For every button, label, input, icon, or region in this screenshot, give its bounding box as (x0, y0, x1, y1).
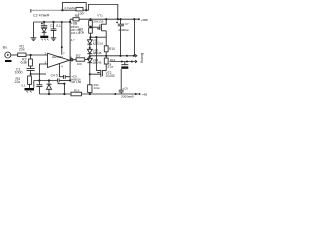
node dot rail D at x=39.4 (38, 79, 40, 81)
diode VD1 (zener below C2) (42, 28, 47, 36)
chassis ground bar under R3 (25, 88, 35, 90)
output terminal chevron bottom (135, 60, 137, 63)
svg-text:6,8к: 6,8к (21, 61, 28, 65)
resistor R1 (series input) (18, 53, 26, 57)
wire jack to R1 (11, 54, 18, 56)
node dot connector bottom at C8 (121, 60, 123, 62)
wire output drop x=134.5 (rail C to connector) (134, 19, 136, 56)
svg-text:+6В: +6В (71, 22, 78, 26)
wire vertical bus x=70.1 (rail C left end down to bottom rail) (69, 19, 71, 80)
supply arrow +38V (137, 18, 140, 20)
diode VD3 (87, 48, 92, 57)
svg-text:0,1: 0,1 (22, 83, 26, 87)
capacitor C8 (Zobel to ground near connector) (121, 62, 128, 65)
resistor R8 box on rail C (73, 18, 79, 21)
svg-text:2000мкФ: 2000мкФ (121, 95, 134, 99)
resistor R10 (box a on x=106.2) (104, 46, 108, 52)
pin 7 wire (V+ up to rail B) (61, 22, 63, 55)
resistor R13 (in bottom rail) (71, 92, 82, 96)
svg-text:100: 100 (77, 62, 82, 66)
node dot rail D at diode (48, 79, 50, 81)
wire C8 down to C9 (120, 69, 122, 90)
wire rail D (pin3 bias bus y=80.5) (34, 80, 58, 82)
svg-text:НЕ5534: НЕ5534 (52, 55, 63, 59)
transistor VT1 (n-MOSFET 2SK135) (91, 19, 107, 31)
capacitor C1 (27, 69, 35, 74)
node dot pin7 at rail B (61, 21, 63, 23)
ground (left, under x=33.5) (31, 38, 37, 41)
wire detour over VT1 (up-and-over) (86, 5, 118, 20)
svg-text:0,1: 0,1 (56, 24, 61, 28)
svg-text:+C9: +C9 (122, 86, 128, 90)
svg-text:+4В: +4В (142, 93, 148, 97)
node dot bottom at diode (48, 93, 50, 95)
node dot input node A (30, 54, 32, 56)
capacitor C6 (series in rail D) (57, 79, 59, 83)
resistor R12 (box b on x=106.2) (104, 58, 108, 64)
node dot W3 at R column (105, 55, 107, 57)
pin 3 wire (39, 64, 47, 81)
svg-text:4,7мкГн: 4,7мкГн (64, 6, 75, 10)
node dot C2 top (43, 21, 45, 23)
svg-text:R8: R8 (75, 14, 80, 18)
wire output drop x=96.4 (W1 down to VT2) (95, 37, 97, 70)
wire rail B (reference bus y=22 from x=33.5 to x=70.1) (34, 21, 71, 23)
diode VD2 (on x=89.8 column) (87, 37, 92, 48)
node dot bottom rail right 1 (114, 93, 116, 95)
node dot bottom at R11 (89, 93, 91, 95)
capacitor C5 (36, 81, 42, 95)
svg-text:КД521А: КД521А (93, 41, 103, 45)
svg-text:2SК135: 2SК135 (93, 19, 104, 23)
diode VD4 (87, 57, 92, 72)
wire diode column to R11 (89, 72, 91, 85)
pin 4 wire (V- down) (59, 64, 61, 77)
node dot rail C at VT1 drain (105, 18, 107, 20)
wire R1 to op-amp pin2 (26, 54, 48, 56)
node dot gate branch (90, 26, 92, 28)
pin 6 output wire (70, 59, 77, 62)
svg-text:Выход: Выход (140, 53, 144, 63)
wire rail C (+38V rail, y=19.3) (70, 18, 137, 20)
node dot rail C at C7 (119, 18, 121, 20)
node dot rail D at bus (69, 79, 71, 81)
capacitor C4 (horizontal) (60, 75, 71, 79)
node dot VT2 lead joins column (89, 73, 91, 75)
svg-text:Вх.: Вх. (3, 45, 8, 49)
svg-text:22к: 22к (19, 48, 25, 52)
svg-text:22к: 22к (15, 80, 21, 84)
node dot connector bottom mid (126, 60, 128, 62)
svg-text:7: 7 (63, 51, 65, 55)
wire R7 to diode node N2 (85, 56, 89, 59)
ground (under C3) (51, 38, 57, 41)
capacitor C3 (51, 22, 57, 38)
node dot W1 at output drop (95, 36, 97, 38)
svg-text:Д814Б: Д814Б (93, 61, 102, 65)
svg-text:0,47: 0,47 (108, 65, 114, 69)
node dot rail A left loop end (61, 9, 63, 11)
node dot W1 left (89, 36, 91, 38)
capacitor C7 (2000uF from rail C down) (118, 19, 124, 56)
wire W1 bus y=37.2 (91, 36, 107, 38)
wire bottom rail y=94 (39, 93, 137, 95)
svg-text:R13: R13 (74, 89, 80, 93)
resistor R5 (upper gate divider box) (89, 21, 93, 27)
node dot bottom at x=64.4 (63, 93, 65, 95)
capacitor C9 (vertical electrolytic to rail) (119, 90, 124, 94)
resistor R2 (from node A down) (29, 59, 33, 66)
svg-text:4: 4 (61, 65, 63, 69)
op-amp DA1 triangle (48, 53, 70, 67)
node dot rail C detour join (117, 18, 119, 20)
svg-text:C4 0,1: C4 0,1 (51, 73, 61, 77)
inductor L1 loop above rail A (62, 3, 86, 11)
node dot jog (63, 83, 65, 85)
transistor VT2 (p-MOSFET 2SJ50) (90, 70, 103, 77)
resistor R11 (source resistor) (88, 85, 92, 93)
node dot rail C at output drop (133, 18, 135, 20)
svg-text:1Ом: 1Ом (94, 86, 100, 90)
resistor R9 (lower gate divider box) (89, 28, 93, 33)
wire to connector bottom (109, 61, 135, 63)
output terminal chevron top (135, 54, 137, 57)
node dot N2 (89, 55, 91, 57)
svg-text:C7: C7 (125, 22, 129, 26)
node dot C3 top (52, 21, 54, 23)
node dot connector top mid (126, 55, 128, 57)
wire rail D left drop to ground (33, 81, 35, 88)
resistor R3 (28, 76, 32, 84)
svg-text:+38В: +38В (140, 18, 147, 22)
svg-text:4,7: 4,7 (71, 38, 75, 42)
resistor R7 (op-amp output series) (76, 58, 85, 61)
svg-text:Д814Б: Д814Б (93, 51, 102, 55)
diode VD5 (on rail D, cathode up) (47, 81, 52, 95)
node dot rail A right loop end (85, 9, 87, 11)
node dot connector bottom (131, 60, 133, 62)
node dot bottom rail right 2 (135, 93, 137, 95)
svg-text:НВ 1,5Б: НВ 1,5Б (71, 80, 81, 84)
svg-text:C2 47мкФ: C2 47мкФ (33, 14, 50, 18)
wire VT1 source column x=106.2 down to R10 (105, 31, 107, 46)
output bubble (71, 59, 73, 61)
chassis ground bar under jack (5, 60, 12, 62)
wire left drop of rail B (33, 22, 35, 38)
wire C1 to pin3 drop (31, 73, 46, 75)
node dot N1 (89, 47, 91, 49)
resistor R4 box on rail A (76, 7, 83, 10)
node dot rail C at x=89.4 (89, 18, 91, 20)
input jack XS1 (5, 52, 11, 58)
node dot W3 at C7 bottom (119, 55, 121, 57)
svg-text:1000: 1000 (15, 71, 23, 75)
wire op-amp drive column x=90.5 from W1 down to VD2 (90, 37, 92, 41)
wire C6 jog to bottom rail (58, 82, 64, 94)
wire rail A (filtered feed, y=10.2 from x=30.8 to x=86.2) (30, 9, 32, 13)
svg-text:2000мк: 2000мк (118, 28, 129, 32)
capacitor C2 (electrolytic, plus mark) (41, 22, 47, 28)
svg-text:100 1,5: 100 1,5 (71, 31, 80, 35)
node dot rail B joins bus (69, 21, 71, 23)
svg-text:R10: R10 (109, 47, 115, 51)
svg-text:VT1: VT1 (97, 13, 103, 17)
node dot connector top (133, 55, 135, 57)
svg-text:2SJ50: 2SJ50 (106, 74, 115, 78)
chassis ground bar (thick, under VD1) (40, 36, 48, 38)
plus mark C7 (116, 22, 118, 24)
node dot C1/R3 junction (30, 73, 32, 75)
wire to connector top (121, 55, 136, 57)
node dot on pin7 line (61, 46, 63, 48)
wire W3 mid bus y=55.8 (90, 55, 121, 57)
bottom terminal arrow (137, 93, 140, 95)
